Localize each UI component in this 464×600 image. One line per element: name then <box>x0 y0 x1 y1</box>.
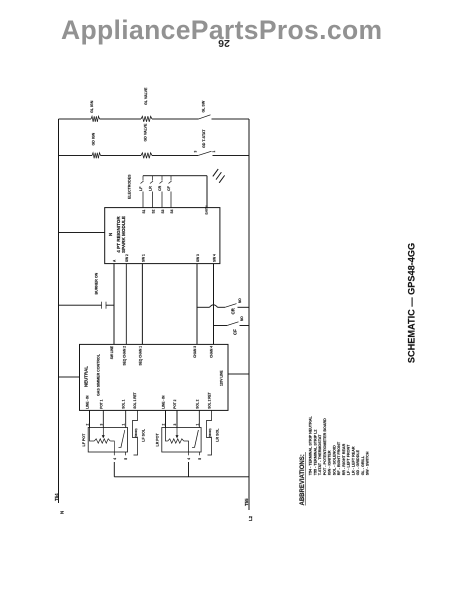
wire: CHAN 3 to module SW 3 <box>196 264 198 345</box>
svg-text:NO: NO <box>240 316 244 321</box>
svg-text:1: 1 <box>212 151 216 153</box>
wire: LR POT pin 4 to bus <box>188 462 190 477</box>
wire: GD rung bottom segment <box>213 155 250 157</box>
wire: LR POT pin 5 stub <box>199 452 201 455</box>
svg-text:GAS SIMMER CONTROL: GAS SIMMER CONTROL <box>97 353 101 396</box>
wire: LINE-IN to LF POT pin 2 <box>89 410 91 427</box>
wire: CR rung to L2 <box>238 306 250 308</box>
svg-text:GD IGN: GD IGN <box>92 132 96 145</box>
svg-text:3: 3 <box>99 424 103 426</box>
wire: GL rung bottom segment <box>212 118 250 120</box>
svg-text:SEQ CHAN 1: SEQ CHAN 1 <box>138 346 142 366</box>
svg-text:A: A <box>113 259 117 262</box>
resistor GD VALVE <box>141 153 152 159</box>
svg-text:SEQ CHAN 2: SEQ CHAN 2 <box>122 346 126 366</box>
svg-text:GL IGN: GL IGN <box>90 100 94 113</box>
svg-text:SOL 2 RET: SOL 2 RET <box>208 392 212 408</box>
solenoid LF SOL (meander) <box>133 410 138 455</box>
svg-text:S3: S3 <box>161 209 165 213</box>
svg-text:LF - LEFT FRONT: LF - LEFT FRONT <box>347 444 351 475</box>
wire: electrode LF stub from S pin <box>142 192 144 208</box>
wire: burner-on branch upper <box>59 304 102 306</box>
wire: CF rung from SW4 wire <box>214 325 228 327</box>
op-amp/module box: 4 PT REIGNITOR SPARK MODULE <box>105 208 220 264</box>
wire: NEUTRAL pin to N rail <box>59 376 80 378</box>
svg-text:CHAN 3: CHAN 3 <box>193 346 197 358</box>
svg-text:SOL 1 RET: SOL 1 RET <box>133 392 137 408</box>
svg-text:GL VALVE: GL VALVE <box>144 87 148 105</box>
spark gap tick LR <box>150 181 153 184</box>
svg-text:SW LINE: SW LINE <box>110 346 114 359</box>
potentiometer box LF POT <box>88 428 127 453</box>
wiper arrow LR POT pin 3 <box>176 428 178 437</box>
wire: CHAN 4 to module SW 4 <box>213 264 215 345</box>
svg-text:CF: CF <box>167 185 171 191</box>
svg-text:SW - SWITCH: SW - SWITCH <box>366 451 370 475</box>
wire: LR POT pin2 internal <box>166 428 168 442</box>
svg-text:EARTH: EARTH <box>205 205 209 214</box>
svg-text:SOL - SOLENOID: SOL - SOLENOID <box>332 445 336 475</box>
svg-text:L2: L2 <box>248 515 253 521</box>
resistor: LF POT pot element <box>94 439 110 443</box>
svg-text:IGN - IGNITER: IGN - IGNITER <box>328 450 332 475</box>
wire: GL rung lower segment <box>152 118 199 120</box>
svg-text:GL - GRILL: GL - GRILL <box>361 455 365 475</box>
svg-text:CR: CR <box>158 185 162 191</box>
svg-text:LF SOL: LF SOL <box>142 428 146 442</box>
svg-text:RR - RIGHT REAR: RR - RIGHT REAR <box>342 443 346 475</box>
svg-text:LF POT: LF POT <box>82 433 86 447</box>
svg-text:SOL 2: SOL 2 <box>195 399 199 408</box>
contact BURNER ON (N.O. contact ticks) <box>101 302 103 309</box>
wire: electrode CF stub from S pin <box>170 192 172 208</box>
svg-text:S4: S4 <box>170 209 174 213</box>
wiper arrow LF POT pin 3 <box>102 428 104 437</box>
svg-text:S1: S1 <box>142 209 146 213</box>
wire: GD rung upper segment <box>59 155 93 157</box>
svg-text:3: 3 <box>194 151 198 153</box>
svg-text:LR SOL: LR SOL <box>216 428 220 442</box>
svg-text:RF - RIGHT FRONT: RF - RIGHT FRONT <box>337 441 341 475</box>
wire: GD rung mid segment <box>101 155 142 157</box>
svg-text:5: 5 <box>198 458 202 460</box>
svg-text:BURNER ON: BURNER ON <box>95 272 99 294</box>
switch contact tick LF POT <box>119 446 122 448</box>
potentiometer box LR POT <box>162 428 201 453</box>
wire: SOL 1 to LF POT pin 1 <box>125 410 127 427</box>
svg-text:LR: LR <box>149 186 153 191</box>
wire: module N pin to N rail <box>59 232 105 234</box>
wire: electrode LR to bus <box>152 176 154 181</box>
svg-text:CF: CF <box>233 329 238 335</box>
svg-text:SOL 1: SOL 1 <box>122 399 126 408</box>
switch blade inside LR POT (pin1) <box>195 430 199 447</box>
wire: electrode bus vertical <box>143 175 207 177</box>
wire: LR POT element to pin 4 <box>184 441 189 452</box>
svg-text:POT - POTENTIOMETER BOARD: POT - POTENTIOMETER BOARD <box>323 418 327 475</box>
svg-text:2: 2 <box>162 424 166 426</box>
svg-text:SW 1: SW 1 <box>142 254 146 262</box>
svg-text:1: 1 <box>195 424 199 426</box>
wire: GL rung upper segment <box>59 118 92 120</box>
svg-text:NEUTRAL: NEUTRAL <box>84 366 89 387</box>
svg-text:T54 - TERMINAL STRIP NEUTRAL: T54 - TERMINAL STRIP NEUTRAL <box>309 415 313 475</box>
svg-text:120V LINE: 120V LINE <box>220 370 224 386</box>
svg-text:CR: CR <box>231 307 236 314</box>
wire: LF POT pin 4 stub <box>113 452 115 455</box>
wire: electrode CF to bus <box>170 176 172 181</box>
svg-text:LF: LF <box>139 186 143 191</box>
wire: SEQ CHAN 1 to module SW 1 <box>141 264 143 345</box>
wire: LF POT pin 5 stub <box>124 452 126 455</box>
svg-text:SW 3: SW 3 <box>196 254 200 262</box>
svg-text:(56000): (56000) <box>208 428 212 437</box>
svg-text:5: 5 <box>124 458 128 460</box>
svg-text:LINE - IN: LINE - IN <box>86 395 90 409</box>
resistor GL VALVE <box>141 116 152 122</box>
wire: neutral rail N / T54 (top horizontal) <box>58 119 60 503</box>
svg-text:3: 3 <box>173 424 177 426</box>
wire: LR POT pin 4 stub <box>188 452 190 455</box>
svg-text:N: N <box>60 511 65 514</box>
wire: SOL 2 to LR POT pin 1 <box>198 410 200 427</box>
wire: GD rung lower segment <box>152 155 198 157</box>
wire: LINE-IN to LR POT pin 2 <box>165 410 167 427</box>
svg-text:GD VALVE: GD VALVE <box>144 123 148 141</box>
IC box: GAS SIMMER CONTROL <box>80 344 229 410</box>
svg-text:SW 4: SW 4 <box>213 254 217 262</box>
wire: electrode LR stub from S pin <box>152 192 154 208</box>
svg-text:NO: NO <box>238 298 242 303</box>
wire: POT 1 to LF POT pin 3 <box>102 410 104 427</box>
switch GD T-STAT blade <box>198 151 212 155</box>
wire: burner-on branch lower <box>106 304 114 306</box>
ground chassis hatch stroke 3 <box>219 175 224 182</box>
wire: SEQ CHAN 2 to module SW 2 <box>125 264 127 345</box>
wire: pot common bus to L2 rail <box>114 476 249 478</box>
svg-text:T54: T54 <box>54 493 59 501</box>
switch blade inside LF POT (pin1) <box>121 430 125 447</box>
switch GL SW blade <box>199 115 211 119</box>
switch contact tick LR POT <box>192 446 195 448</box>
spark gap tick CF <box>169 181 172 184</box>
svg-text:1: 1 <box>122 424 126 426</box>
wire: LF POT element to pin 4 <box>110 441 114 452</box>
switch CR blade <box>225 304 237 308</box>
svg-text:GD - GRIDDLE: GD - GRIDDLE <box>356 449 360 475</box>
svg-text:4: 4 <box>187 458 191 460</box>
wire: electrode CR stub from S pin <box>161 192 163 208</box>
wire: LF POT pin2 internal <box>90 428 95 442</box>
svg-text:T55 - TERMINAL STRIP L2: T55 - TERMINAL STRIP L2 <box>313 430 317 476</box>
svg-text:ELECTRODES: ELECTRODES <box>128 174 132 199</box>
watermark AppliancePartsPros.com <box>61 15 382 46</box>
wire: SW LINE to module pin A <box>113 264 115 345</box>
spark gap tick LF <box>141 181 144 184</box>
svg-text:POT 1: POT 1 <box>99 399 103 408</box>
svg-text:LINE - IN: LINE - IN <box>162 395 166 409</box>
svg-text:CHAN 4: CHAN 4 <box>210 346 214 358</box>
svg-text:S2: S2 <box>152 209 156 213</box>
svg-text:SW 2: SW 2 <box>125 254 129 262</box>
svg-text:T-STAT - THERMOSTAT: T-STAT - THERMOSTAT <box>318 434 322 475</box>
ground chassis hatch stroke 1 <box>213 169 218 176</box>
wire: 120V LINE pin to L2 rail <box>228 373 249 375</box>
wire: CR rung to switch <box>218 306 226 308</box>
wire: LF POT pin 4 to bus <box>113 462 115 477</box>
svg-text:(56000): (56000) <box>134 428 138 437</box>
wire: POT 2 to LR POT pin 3 <box>176 410 178 427</box>
svg-text:T55: T55 <box>244 498 249 506</box>
svg-text:LR - LEFT REAR: LR - LEFT REAR <box>351 446 355 475</box>
wire: L2 rail / T55 (bottom horizontal) <box>248 119 250 510</box>
svg-text:POT 2: POT 2 <box>173 399 177 408</box>
svg-text:SCHEMATIC — GPS48-4GG: SCHEMATIC — GPS48-4GG <box>407 243 417 363</box>
svg-text:2: 2 <box>86 424 90 426</box>
resistor: LR POT pot element <box>168 439 184 443</box>
wire hop over SW4 wire <box>210 305 218 308</box>
svg-text:N: N <box>108 233 113 236</box>
page number 26 (upside down) <box>217 37 231 49</box>
wire: CR rung from SW3 wire <box>197 306 210 308</box>
solenoid LR SOL (meander) <box>207 410 212 455</box>
wire: electrode CR to bus <box>161 176 163 181</box>
switch CF blade <box>227 322 239 326</box>
svg-text:GD T-STAT: GD T-STAT <box>202 129 206 148</box>
wire: CF rung to L2 <box>240 325 250 327</box>
svg-text:SPARK MODULE: SPARK MODULE <box>121 216 126 253</box>
resistor GL IGN <box>91 116 100 122</box>
wire: GL rung mid segment <box>100 118 142 120</box>
resistor GD IGN <box>92 153 101 159</box>
svg-text:GL SW: GL SW <box>202 100 206 112</box>
wire: earth pin to bus bottom <box>206 176 208 208</box>
svg-text:4: 4 <box>113 458 117 460</box>
spark gap tick CR <box>160 181 163 184</box>
svg-text:LR POT: LR POT <box>156 433 160 447</box>
ground chassis hatch stroke 2 <box>216 172 221 179</box>
wire: electrode LF to bus <box>142 176 144 181</box>
